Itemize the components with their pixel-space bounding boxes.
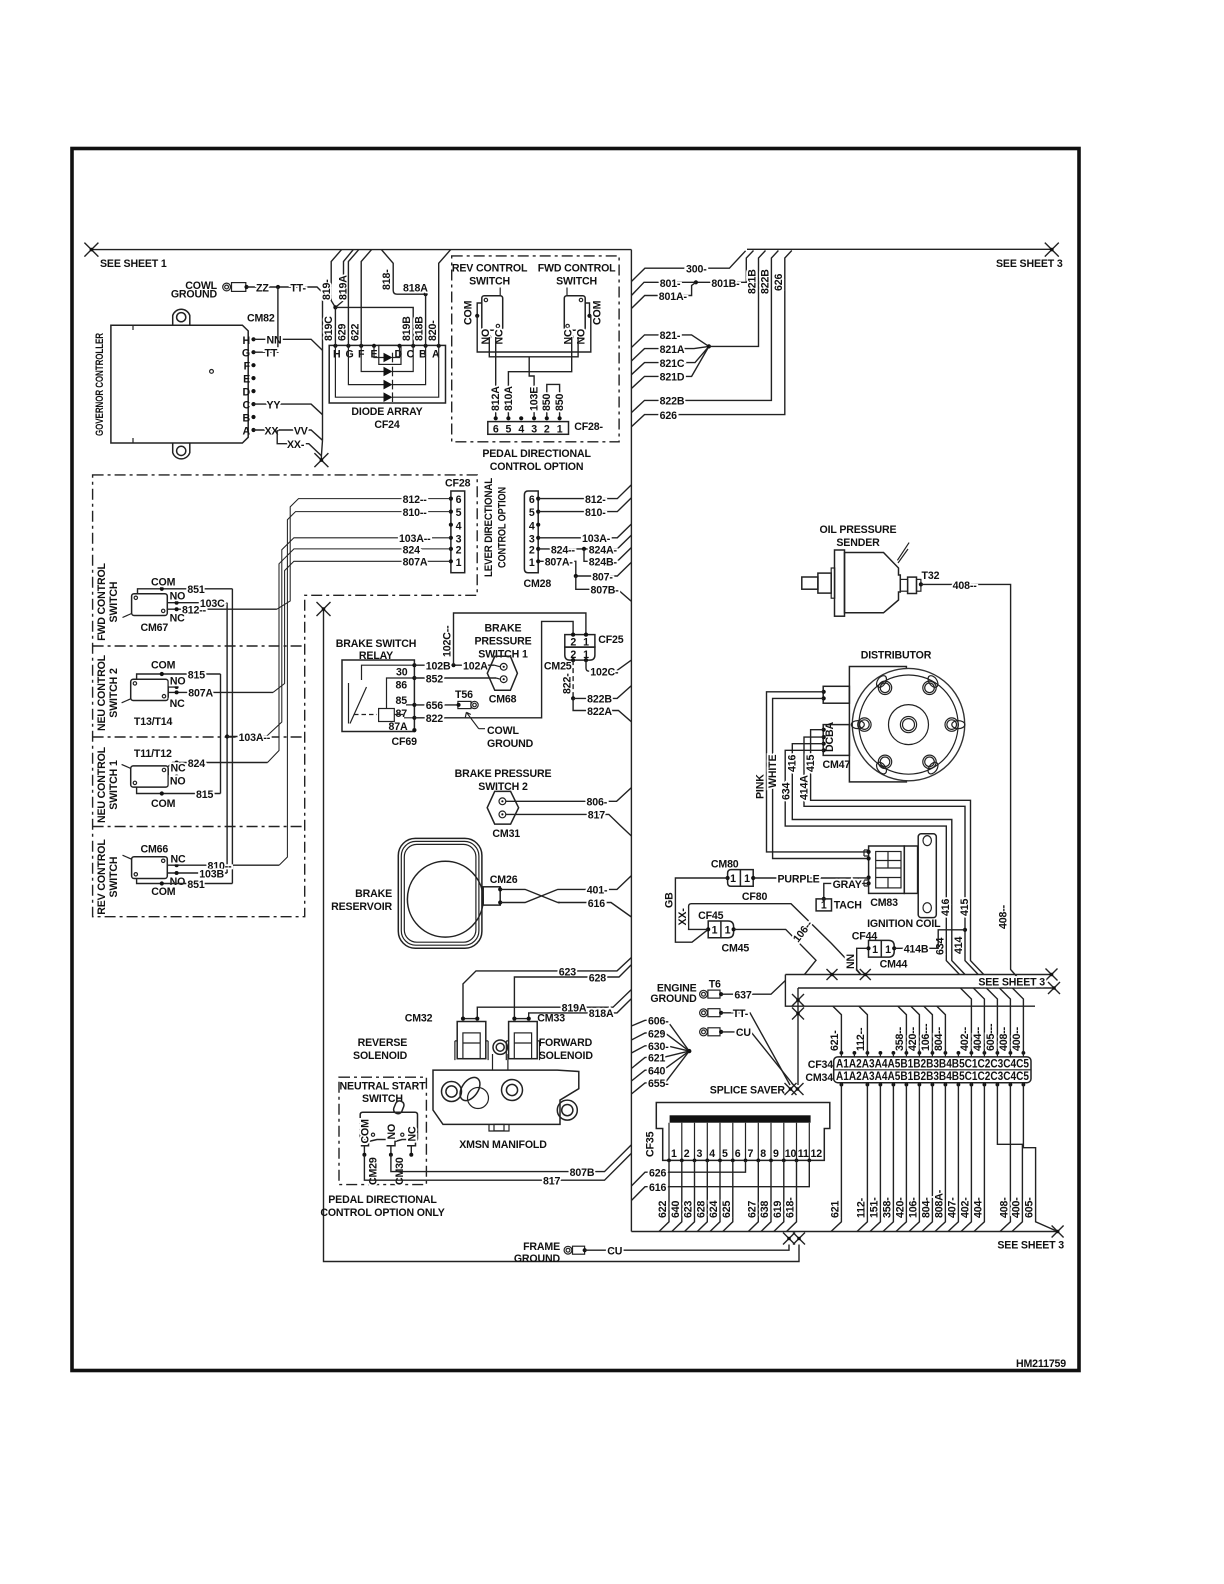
wire 634 CM47 to right vertical (785, 750, 959, 974)
svg-text:CF28-: CF28- (574, 421, 603, 433)
svg-text:810A: 810A (503, 386, 515, 411)
diode D1 (384, 353, 393, 363)
svg-text:420--: 420-- (907, 1026, 919, 1051)
wire 818- from top line (381, 250, 425, 295)
svg-text:415: 415 (805, 755, 817, 772)
wire 102C- CM25 pin1 to trunk (586, 660, 631, 671)
wire 401- crossing to trunk (500, 889, 560, 902)
wire 810-- into CF28 pin5 (279, 512, 451, 866)
svg-text:CU: CU (736, 1027, 751, 1039)
svg-text:6: 6 (529, 494, 535, 506)
svg-text:1: 1 (730, 873, 736, 885)
svg-text:FORWARD: FORWARD (539, 1037, 593, 1049)
diode array pin dots (333, 344, 441, 348)
svg-text:102C-: 102C- (590, 667, 619, 679)
svg-text:CF28: CF28 (445, 478, 471, 490)
svg-text:SENDER: SENDER (836, 537, 880, 549)
svg-text:NC: NC (171, 854, 187, 866)
svg-text:SWITCH 1: SWITCH 1 (478, 649, 528, 661)
svg-text:4: 4 (518, 423, 524, 435)
svg-text:B: B (242, 413, 250, 425)
svg-text:OIL PRESSURE: OIL PRESSURE (820, 524, 897, 536)
wire 810- CM28 pin5 to trunk (538, 498, 631, 512)
svg-text:820-: 820- (427, 320, 439, 341)
wire 801- (631, 251, 753, 296)
svg-text:85: 85 (396, 695, 408, 707)
wire 817 to trunk going down (506, 814, 632, 836)
X mark CU wire end (783, 1233, 795, 1245)
svg-text:GROUND: GROUND (514, 1253, 561, 1265)
pedal directional control option dashed box (452, 256, 619, 442)
svg-text:1: 1 (885, 944, 891, 956)
svg-text:415: 415 (959, 899, 971, 916)
governor controller box (111, 325, 248, 443)
svg-text:408-: 408- (998, 1197, 1010, 1218)
svg-text:CONTROL OPTION ONLY: CONTROL OPTION ONLY (320, 1207, 444, 1219)
X marks on rail verticals (792, 994, 804, 1006)
svg-text:BRAKE SWITCH: BRAKE SWITCH (336, 638, 417, 650)
wire 819B across to pin C (335, 307, 413, 345)
svg-text:821-: 821- (660, 330, 681, 342)
top harness line sheet1 to sheet3 (91, 248, 1051, 250)
svg-text:1: 1 (725, 925, 731, 937)
svg-text:801A-: 801A- (659, 291, 688, 303)
svg-text:CF24: CF24 (374, 419, 400, 431)
svg-text:NN: NN (845, 954, 857, 969)
svg-text:420-: 420- (894, 1197, 906, 1218)
svg-text:815: 815 (188, 670, 205, 682)
node 821 junction (707, 344, 711, 348)
X mark bottom right of left run (793, 1233, 805, 1245)
svg-text:822-: 822- (562, 673, 574, 694)
svg-text:151-: 151- (868, 1197, 880, 1218)
svg-text:637: 637 (734, 989, 751, 1001)
svg-text:621: 621 (648, 1053, 665, 1065)
svg-text:CF80: CF80 (742, 891, 768, 903)
svg-text:G: G (242, 348, 250, 360)
svg-text:812-: 812- (585, 494, 606, 506)
neutral start switch body (360, 1100, 417, 1146)
svg-text:PINK: PINK (755, 774, 767, 799)
svg-text:818B: 818B (414, 316, 426, 341)
svg-text:T32: T32 (922, 570, 940, 582)
svg-text:NC: NC (171, 763, 187, 775)
svg-text:CF45: CF45 (698, 910, 724, 922)
svg-text:807-: 807- (592, 571, 613, 583)
svg-text:CONTROL OPTION: CONTROL OPTION (497, 487, 509, 568)
svg-text:1: 1 (821, 900, 827, 912)
svg-text:12: 12 (811, 1148, 823, 1160)
wire 821C (631, 346, 709, 374)
svg-text:2: 2 (456, 545, 462, 557)
svg-text:A: A (242, 426, 250, 438)
svg-text:PURPLE: PURPLE (778, 873, 820, 885)
svg-text:E: E (243, 374, 250, 386)
wire 622 pin F to top line (361, 250, 371, 346)
connector CM26 (483, 887, 500, 905)
distributor body (849, 667, 964, 782)
svg-text:6: 6 (456, 494, 462, 506)
wire NN CF44 to rail1 (857, 948, 869, 974)
svg-text:625: 625 (721, 1201, 733, 1218)
svg-text:822A: 822A (587, 706, 612, 718)
svg-text:CM26: CM26 (490, 874, 518, 886)
svg-text:3: 3 (697, 1148, 703, 1160)
svg-text:NC: NC (562, 329, 574, 345)
svg-text:A1A2A3A4A5B1B2B3B4B5C1C2C3C4C5: A1A2A3A4A5B1B2B3B4B5C1C2C3C4C5 (836, 1071, 1030, 1083)
svg-text:CM34: CM34 (805, 1072, 833, 1084)
svg-text:606-: 606- (648, 1016, 669, 1028)
svg-text:821D: 821D (660, 372, 685, 384)
rev control switch CM-body (482, 288, 503, 331)
svg-text:616: 616 (588, 898, 605, 910)
svg-text:NN: NN (267, 335, 282, 347)
svg-text:824--: 824-- (551, 544, 576, 556)
wire 103A-- into CF28 pin3 (266, 538, 451, 737)
wire 822- CM25 pin2 down (572, 660, 574, 698)
svg-text:LEVER DIRECTIONAL: LEVER DIRECTIONAL (483, 477, 495, 577)
svg-text:619: 619 (772, 1201, 784, 1218)
wire 801A- (631, 282, 696, 308)
svg-text:3: 3 (531, 423, 537, 435)
svg-text:11: 11 (798, 1148, 809, 1160)
X mark right end (1045, 243, 1059, 257)
svg-text:SWITCH: SWITCH (556, 276, 597, 288)
svg-text:102C--: 102C-- (442, 625, 454, 657)
svg-text:1: 1 (872, 944, 878, 956)
svg-text:DIODE ARRAY: DIODE ARRAY (351, 406, 422, 418)
T11 NO stub (168, 776, 176, 778)
bus 103C/103B vertical (226, 603, 228, 873)
bottom harness rail (631, 1231, 1057, 1233)
svg-text:FRAME: FRAME (523, 1241, 560, 1253)
CF35 contact bar (670, 1115, 811, 1122)
X mark bottom rail end (1052, 1226, 1064, 1238)
svg-text:819C: 819C (323, 316, 335, 341)
svg-text:628: 628 (695, 1201, 707, 1218)
svg-text:SEE SHEET 3: SEE SHEET 3 (996, 258, 1063, 270)
svg-text:817: 817 (588, 810, 605, 822)
svg-text:408--: 408-- (998, 1026, 1010, 1051)
CF35 pin numbers (671, 1148, 822, 1160)
svg-text:D: D (242, 387, 250, 399)
connector CF35 shell (656, 1103, 830, 1161)
svg-text:818-: 818- (381, 269, 393, 290)
svg-text:COM: COM (151, 798, 176, 810)
svg-text:CF34: CF34 (808, 1059, 834, 1071)
wire XX / VV from pin A (254, 430, 323, 440)
wire 626 (631, 251, 791, 427)
svg-text:REV CONTROL: REV CONTROL (96, 839, 108, 915)
svg-text:NEU CONTROL: NEU CONTROL (96, 654, 108, 731)
svg-text:616: 616 (649, 1182, 666, 1194)
svg-text:655-: 655- (648, 1078, 669, 1090)
svg-text:804--: 804-- (933, 1026, 945, 1051)
svg-text:NEU CONTROL: NEU CONTROL (96, 746, 108, 823)
svg-text:CM33: CM33 (537, 1013, 565, 1025)
svg-text:808A-: 808A- (933, 1189, 945, 1218)
wire 819- from top line (331, 250, 341, 308)
svg-text:812A: 812A (490, 386, 502, 411)
svg-text:REV CONTROL: REV CONTROL (452, 263, 528, 275)
connector on distributor upper (823, 686, 849, 703)
svg-text:VV: VV (294, 425, 308, 437)
connector CF34 CM34 (834, 1057, 1031, 1083)
wire 628 forward solenoid to trunk (514, 965, 631, 1019)
svg-text:801B-: 801B- (711, 278, 740, 290)
governor mounting tab bottom (173, 443, 190, 459)
fwd control switch CM67 (123, 594, 168, 618)
svg-text:822: 822 (426, 713, 443, 725)
svg-text:GROUND: GROUND (650, 993, 697, 1005)
wire 103E bus to CF28 pin3 (529, 357, 534, 419)
wire 807A into CF28 pin1 (273, 561, 451, 692)
fwd switch COM pin (585, 303, 590, 316)
svg-text:PRESSURE: PRESSURE (474, 636, 531, 648)
svg-text:NC: NC (170, 698, 186, 710)
svg-text:810-: 810- (585, 507, 606, 519)
svg-text:824: 824 (403, 544, 420, 556)
svg-text:NC: NC (407, 1126, 419, 1142)
svg-text:656: 656 (426, 700, 443, 712)
svg-text:FWD CONTROL: FWD CONTROL (96, 562, 108, 640)
svg-text:5: 5 (722, 1148, 728, 1160)
svg-text:806-: 806- (587, 797, 608, 809)
svg-text:9: 9 (773, 1148, 779, 1160)
svg-text:PEDAL DIRECTIONAL: PEDAL DIRECTIONAL (482, 448, 591, 460)
svg-text:416: 416 (940, 899, 952, 916)
wire 824 into CF28 pin2 (268, 549, 451, 763)
svg-text:30: 30 (396, 667, 408, 679)
svg-text:634: 634 (935, 938, 947, 955)
svg-text:RESERVOIR: RESERVOIR (331, 901, 392, 913)
svg-text:807A-: 807A- (545, 557, 574, 569)
CM34 bottom wire labels (829, 1189, 1035, 1218)
T11 NC wire 824 (168, 763, 267, 767)
svg-text:4: 4 (529, 520, 535, 532)
svg-text:XX: XX (265, 425, 279, 437)
svg-text:4: 4 (709, 1148, 715, 1160)
svg-text:SEE SHEET 3: SEE SHEET 3 (978, 977, 1045, 989)
svg-text:400-: 400- (1010, 1197, 1022, 1218)
svg-text:F: F (244, 361, 251, 373)
svg-text:6: 6 (493, 423, 499, 435)
svg-text:818A: 818A (589, 1008, 614, 1020)
wire ZZ to TT- (247, 287, 323, 293)
svg-text:1: 1 (712, 925, 718, 937)
small hole in governor (210, 370, 214, 374)
svg-text:2: 2 (529, 545, 535, 557)
svg-text:634: 634 (781, 783, 793, 800)
svg-text:624: 624 (708, 1201, 720, 1218)
svg-text:358-: 358- (881, 1197, 893, 1218)
svg-text:NEUTRAL START: NEUTRAL START (340, 1081, 427, 1093)
svg-text:86: 86 (396, 680, 408, 692)
svg-text:103A--: 103A-- (239, 732, 271, 744)
wire 103A- CM28 pin3 to trunk (538, 524, 631, 538)
svg-text:SWITCH: SWITCH (362, 1093, 403, 1105)
svg-text:C: C (242, 400, 250, 412)
svg-text:CM66: CM66 (141, 844, 169, 856)
svg-text:851: 851 (187, 879, 204, 891)
wire 818A forward solenoid to trunk (529, 999, 632, 1019)
wire 852 relay pin86 to CM68 (414, 677, 496, 679)
svg-text:821C: 821C (660, 358, 685, 370)
rev switch NO NC pins (489, 330, 495, 337)
svg-text:627: 627 (746, 1201, 758, 1218)
wire 616 trunk to CF35 pin12 (631, 1160, 809, 1200)
svg-text:NO: NO (170, 676, 186, 688)
svg-text:NO: NO (576, 329, 588, 345)
svg-text:2: 2 (684, 1148, 690, 1160)
wire 822 relay pin87 to CF25 pin2 (414, 621, 573, 717)
wire 623 reverse solenoid to trunk (463, 958, 631, 1019)
T11 COM wire 815 (137, 787, 221, 793)
svg-text:XX-: XX- (677, 908, 689, 926)
svg-text:CM67: CM67 (141, 622, 169, 634)
svg-text:SWITCH 2: SWITCH 2 (108, 668, 120, 718)
svg-text:622: 622 (657, 1201, 669, 1218)
CM66 NC wire 810-- (167, 864, 279, 866)
wire 807B neutral NO to trunk (391, 1145, 632, 1172)
svg-text:815: 815 (196, 789, 213, 801)
svg-text:GROUND: GROUND (171, 289, 218, 301)
wire COM-COM bus (477, 316, 591, 352)
wire 106-- CM45 to rail (734, 929, 816, 974)
svg-text:4: 4 (456, 520, 462, 532)
neutral start switch dashed box (339, 1077, 426, 1184)
svg-text:402-: 402- (959, 1197, 971, 1218)
connector CM47 (823, 725, 849, 756)
svg-text:416: 416 (787, 755, 799, 772)
X mark top of left run (317, 602, 331, 616)
relay pin dots (412, 663, 416, 667)
svg-text:GRAY: GRAY (833, 879, 862, 891)
wire 300- trunk to top line (631, 251, 745, 282)
svg-text:6: 6 (735, 1148, 741, 1160)
wire GRAY coil to tach (824, 883, 869, 899)
wire 821D (631, 346, 709, 388)
terminal CU engine ground (700, 1028, 724, 1036)
cowl ground symbol top (223, 283, 249, 292)
svg-text:BRAKE: BRAKE (355, 888, 392, 900)
svg-text:CONTROL OPTION: CONTROL OPTION (490, 461, 584, 473)
relay pin labels (389, 667, 408, 734)
harness rail 2 (798, 987, 1054, 989)
wire 819A from top line (335, 250, 353, 308)
CM67 NC pin wire 812-- (167, 608, 277, 610)
tach connector (816, 899, 831, 911)
svg-text:102B: 102B (426, 661, 451, 673)
wire GB CM80 to CF45 (675, 878, 727, 942)
svg-text:807B-: 807B- (591, 585, 620, 597)
CM67 NO pin wire 103C (167, 602, 227, 604)
oil pressure sender body (802, 543, 921, 617)
svg-text:621: 621 (829, 1201, 841, 1218)
CM34 bottom pin dots (840, 1083, 1026, 1087)
wire 414A CM47 to 414 vertical (804, 737, 978, 974)
svg-text:COM: COM (592, 300, 604, 325)
svg-text:COM: COM (463, 300, 475, 325)
connector CF25 (565, 635, 595, 648)
svg-text:628: 628 (589, 972, 606, 984)
X marks at rail right ends (1046, 969, 1058, 981)
wire PURPLE CM80 to coil (753, 877, 868, 879)
svg-text:ZZ: ZZ (256, 283, 269, 295)
svg-text:IGNITION COIL: IGNITION COIL (867, 918, 941, 930)
wire 414B CM44 to 414 (894, 930, 965, 949)
svg-text:821A: 821A (660, 344, 685, 356)
svg-text:407-: 407- (946, 1197, 958, 1218)
svg-text:CM68: CM68 (489, 694, 517, 706)
svg-text:112-: 112- (855, 1197, 867, 1218)
svg-text:822B: 822B (587, 694, 612, 706)
svg-text:T56: T56 (455, 689, 473, 701)
rail2 corner down to splice saver (797, 988, 799, 1085)
svg-text:BRAKE: BRAKE (485, 623, 522, 635)
wire 812A rev NC to CF28 pin6 (495, 337, 497, 418)
neutral switch pins (364, 1146, 411, 1155)
svg-text:817: 817 (543, 1176, 560, 1188)
svg-text:WHITE: WHITE (767, 755, 779, 788)
svg-text:COM: COM (151, 577, 176, 589)
svg-text:850: 850 (554, 394, 566, 411)
CF34 top pin dots (840, 1051, 1026, 1055)
svg-text:640: 640 (670, 1201, 682, 1218)
diode internal wiring (374, 346, 400, 358)
svg-text:TACH: TACH (834, 900, 862, 912)
svg-text:807B: 807B (570, 1167, 595, 1179)
harness wire left vertical run (324, 609, 800, 1262)
svg-text:626: 626 (649, 1168, 666, 1180)
svg-text:1: 1 (583, 636, 589, 648)
diode D2 (384, 367, 393, 377)
diode array CF24 box (329, 345, 445, 403)
svg-text:822B: 822B (660, 396, 685, 408)
svg-text:812--: 812-- (182, 605, 207, 617)
svg-text:5: 5 (456, 507, 462, 519)
svg-text:106-: 106- (907, 1197, 919, 1218)
diode D4 (384, 392, 393, 402)
wire 102B 102A relay pin30 to CM68 (414, 664, 494, 666)
wire 818B down to pin B (425, 294, 427, 346)
svg-text:812--: 812-- (403, 494, 428, 506)
connector CF28- (488, 422, 569, 435)
connector CM28 (524, 491, 538, 573)
svg-text:HM211759: HM211759 (1016, 1358, 1066, 1370)
connector CF28 lever (451, 491, 465, 573)
svg-text:NO: NO (170, 590, 186, 602)
svg-text:623: 623 (683, 1201, 695, 1218)
wire 819C down to pin H (334, 307, 336, 345)
svg-text:605-: 605- (1024, 1197, 1036, 1218)
svg-text:SPLICE SAVER: SPLICE SAVER (710, 1085, 786, 1097)
wire 821A (631, 346, 709, 361)
wire 637 to rail (721, 981, 785, 995)
T13 COM wire 815 (137, 674, 221, 679)
wire 656 relay pin85 to T56 (414, 704, 458, 706)
svg-text:414A: 414A (799, 775, 811, 800)
relay internals (349, 665, 415, 723)
svg-text:2: 2 (544, 423, 550, 435)
CF35 bottom wire labels (657, 1197, 797, 1218)
svg-text:GB: GB (664, 892, 676, 908)
svg-text:300-: 300- (686, 264, 707, 276)
svg-text:404-: 404- (972, 1197, 984, 1218)
svg-text:1: 1 (671, 1148, 677, 1160)
wire 822B (631, 251, 778, 413)
svg-text:810--: 810-- (403, 507, 428, 519)
